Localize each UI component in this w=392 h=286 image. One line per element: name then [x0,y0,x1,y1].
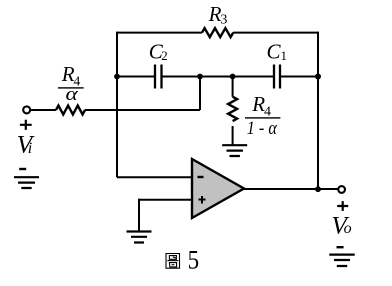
wire: node B to C1 [233,76,273,78]
resistor R4/(1-a) [228,97,237,121]
resistor R3 [202,28,233,37]
wire: op-amp output [244,188,338,190]
wire: R4/a to node A drop [85,109,200,111]
label + (Vi polarity) [20,120,32,130]
label - (Vo polarity) [337,246,344,248]
label R4/a (fraction) [58,62,84,105]
svg-text:1: 1 [281,48,288,63]
label - (Vi polarity) [19,168,26,170]
wire: top feedback rail left segment [117,32,202,34]
capacitor C1 [274,65,280,89]
wire: C2 to node A [163,76,201,78]
svg-text:α: α [66,84,79,105]
junction: node A (input branch joins capacitor rail) [197,74,203,80]
svg-text:3: 3 [220,13,227,28]
label Vo [331,211,351,240]
wire: left vertical (top rail down to inverting input) [116,32,118,178]
caption: figure glyph (tu) [166,254,180,269]
svg-text:C: C [267,40,282,64]
wire: inverting input [117,176,192,178]
label Vi [17,130,36,159]
wire: node A drop (vertical) [199,77,201,111]
output terminal Vo [338,186,345,193]
ground (output) [329,255,354,266]
wire: capacitor rail left segment [117,76,154,78]
resistor R4/a [56,106,85,115]
wire: non-inverting input down to ground [138,199,140,232]
ground (R4/(1-a)) [222,145,247,156]
junction: capacitor rail / right vertical [315,74,321,80]
label C2 [149,40,168,64]
label + (Vo polarity) [337,201,348,211]
svg-text:i: i [28,140,32,157]
op-amp U1 [192,159,244,218]
svg-text:2: 2 [161,48,168,63]
capacitor C2 [155,65,162,89]
junction: left vertical / capacitor rail [114,74,120,80]
wire: top feedback rail right segment [233,32,318,34]
svg-text:5: 5 [188,246,200,275]
ground (input source) [14,177,39,188]
wire: R4/(1-a) to ground [232,126,234,145]
wire: input terminal to R4/a [31,109,57,111]
caption: figure number 5 [188,246,200,275]
svg-text:1 - α: 1 - α [247,118,278,139]
junction: output / right vertical [315,186,321,192]
wire: node A to node B [200,76,233,78]
ground (non-inverting input) [127,232,152,243]
wire: node B down to resistor R4/(1-a) [232,77,234,97]
wire: right vertical (top rail down to output) [317,32,319,190]
label C1 [267,40,288,64]
input terminal Vi [23,106,30,113]
label R3 [208,2,228,28]
junction: node B (R4/(1-a) tap) [230,74,236,80]
wire: non-inverting input [139,199,192,201]
label R4/(1-a) (fraction) [245,92,280,139]
wire: C1 to right vertical [281,76,318,78]
svg-text:o: o [344,220,352,237]
